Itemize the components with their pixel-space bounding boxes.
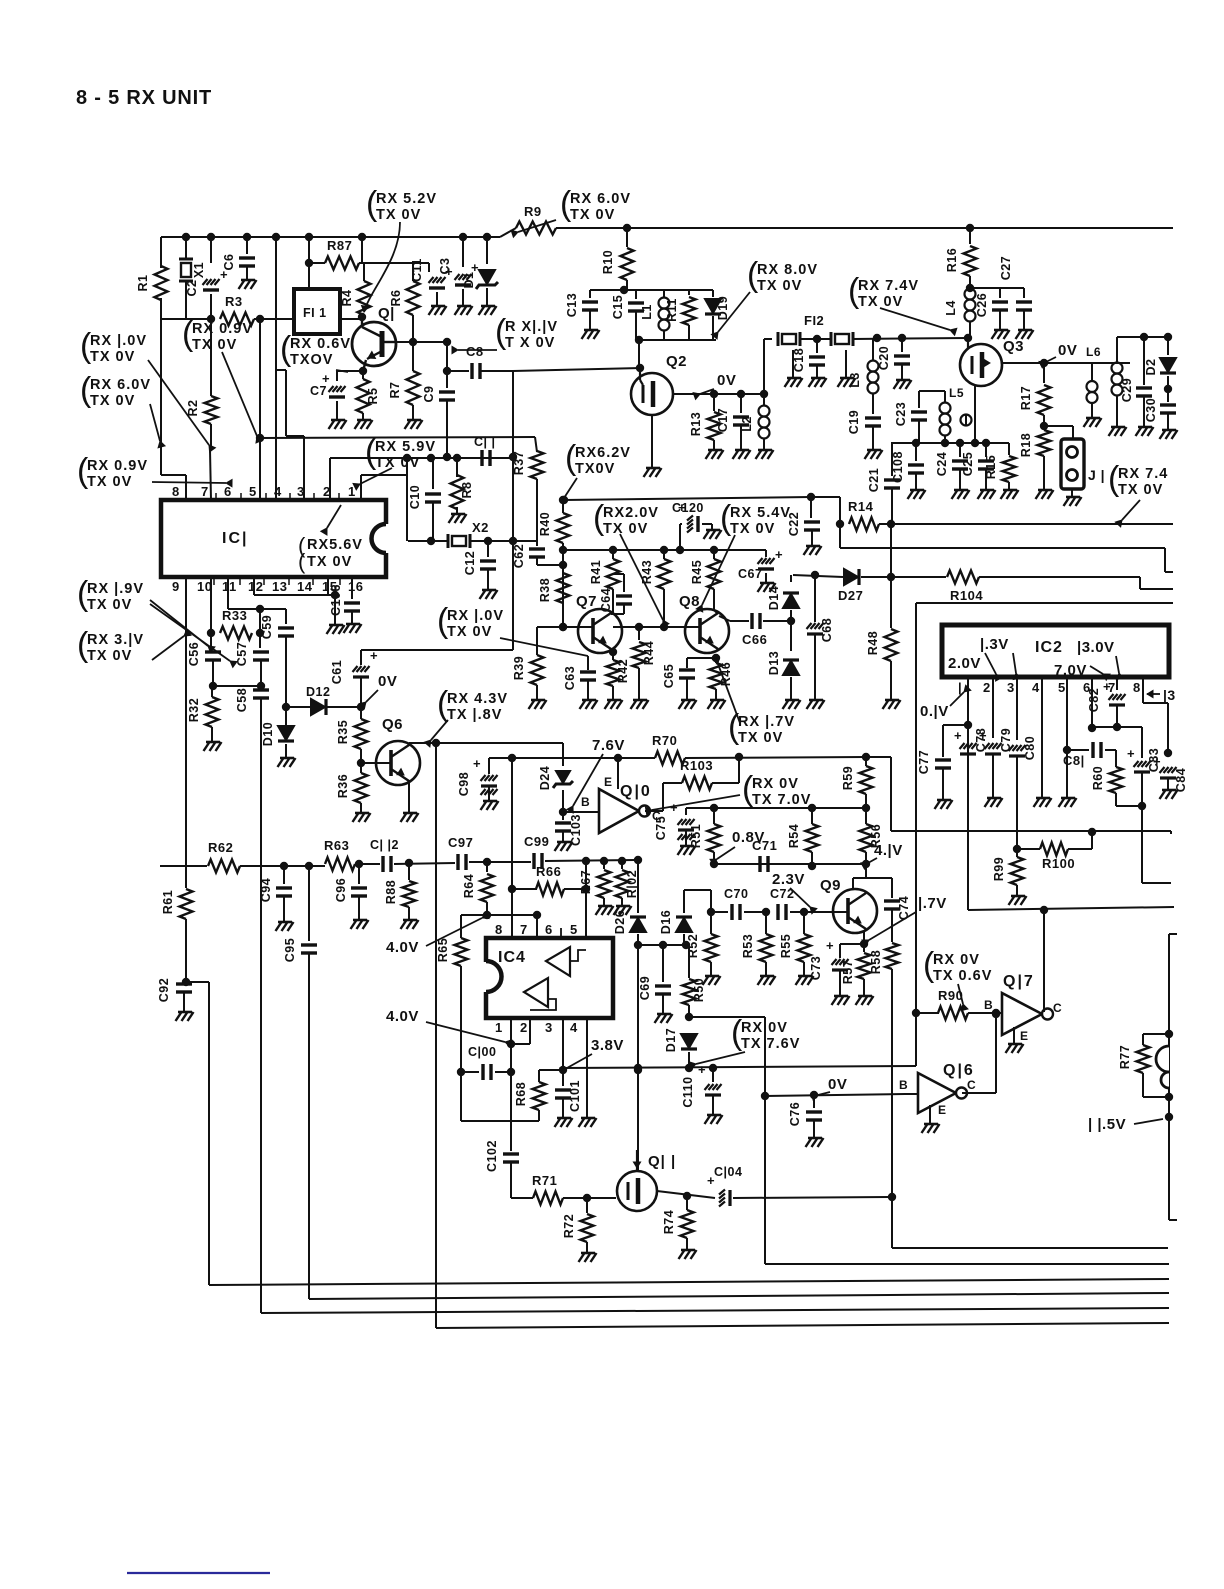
svg-text:C6: C6 [222,254,236,271]
wire C83 node down [1141,806,1143,883]
capacitor C30 [1167,389,1169,402]
capacitor C24 [959,443,961,457]
wire y832 crossing [1088,828,1096,836]
svg-text:R72: R72 [562,1214,576,1238]
svg-text:Q|6: Q|6 [943,1062,975,1079]
resistor R33 [220,627,252,640]
svg-text:Q3: Q3 [1003,338,1024,355]
wire y808 node line [686,807,866,809]
capacitor C3 [459,233,467,241]
svg-text:C57: C57 [235,642,249,666]
svg-text:2: 2 [520,1020,528,1035]
transistor Q1 [352,322,396,366]
capacitor C65 [686,658,688,668]
fet Q2 [631,373,673,415]
svg-text:RX 5.9V: RX 5.9V [375,439,436,455]
transistor Q6 [376,741,420,785]
svg-text:R63: R63 [324,838,349,853]
capacitor C64 [623,574,625,592]
wire top supply bus [161,236,500,238]
svg-text:L4: L4 [944,300,958,316]
svg-text:C: C [1053,1001,1062,1015]
diode D19 [712,290,714,297]
capacitor C96 [358,864,360,884]
resistor R104 [940,576,946,578]
wire y865 node line [714,863,866,865]
resistor R15 [1008,443,1010,455]
wire Q7 base line [537,626,593,628]
svg-text:Q2: Q2 [666,353,687,370]
svg-text:C3: C3 [438,258,452,275]
inductor L1 [663,290,665,297]
capacitor C56 [210,633,212,648]
svg-text:|: | [958,680,962,695]
svg-text:R2: R2 [186,400,200,417]
IC2 pin7 lead C82 [1116,677,1118,690]
svg-text:0.8V: 0.8V [732,829,765,846]
capacitor C11 [480,450,483,466]
svg-text:7.6V: 7.6V [592,737,625,754]
wire R87-R4 node to bus [359,262,364,264]
svg-text:Q|0: Q|0 [620,783,652,800]
svg-text:TX 0V: TX 0V [375,455,420,471]
svg-text:0V: 0V [828,1076,847,1093]
inductor L3 [872,338,874,361]
inductor L4 [965,289,976,300]
crystal X1 [182,233,190,241]
wire Q6 collector line [408,743,410,746]
svg-text:C24: C24 [935,452,949,476]
svg-text:C|04: C|04 [714,1165,742,1179]
svg-text:TX 7.0V: TX 7.0V [752,792,811,808]
svg-text:Q9: Q9 [820,877,841,894]
capacitor C70 [710,890,712,912]
svg-text:J |: J | [1088,467,1105,483]
svg-text:TX 0V: TX 0V [730,521,775,537]
capacitor C120 [687,516,693,521]
svg-text:C17: C17 [716,408,730,432]
resistor R41 [612,550,614,559]
tank L5 / C23 [919,390,945,392]
svg-text:IC|: IC| [222,530,248,547]
capacitor C94 [283,866,285,884]
svg-text:D2: D2 [1144,359,1158,376]
capacitor C92 [176,982,192,985]
svg-text:TX 0V: TX 0V [90,393,135,409]
svg-text:C15: C15 [611,295,625,319]
IC2 pin1 lead [967,677,969,910]
wire Q9 base line [804,911,848,913]
wire Q1 emitter node [359,367,367,375]
wire y728 [1092,726,1142,728]
resistor R58 [891,930,893,942]
wire Q16 E ground [929,1105,931,1124]
filter FI2 crystal a [777,332,780,346]
svg-text:C62: C62 [512,544,526,568]
svg-text:C66: C66 [742,632,767,647]
svg-text:R14: R14 [848,499,874,514]
wire pin1 bottom corner [968,907,1174,910]
svg-text:R3: R3 [225,294,243,309]
coil L5b [961,415,972,426]
resistor R60 [1115,750,1117,767]
svg-text:C98: C98 [457,772,471,796]
footer underline [127,1572,270,1574]
svg-text:C80: C80 [1023,736,1037,760]
svg-text:C2: C2 [185,280,199,297]
wire pin1 lead [360,475,362,500]
svg-text:C75: C75 [654,816,668,840]
resistor R56 [865,808,867,824]
resistor R35 [360,707,362,719]
capacitor C59 [260,608,286,610]
wire C67 feed [765,550,767,557]
capacitor C77 [935,758,951,761]
IC4 pin7 wiring [536,915,538,938]
svg-text:RX |.0V: RX |.0V [447,608,504,624]
resistor R5 [362,371,364,379]
wire Q10 out to R103 [645,810,663,812]
label 13 output [1147,690,1153,697]
svg-text:+: + [370,648,378,663]
svg-text:D24: D24 [538,766,552,790]
svg-text:R10: R10 [601,250,615,274]
svg-text:R88: R88 [384,880,398,904]
wire R87 left to FI1 top [305,233,313,241]
wire bottom line 2 [261,1308,1169,1313]
resistor R66 [512,888,537,890]
svg-text:RX 8.0V: RX 8.0V [757,262,818,278]
svg-text:R1: R1 [136,275,150,292]
svg-text:R35: R35 [336,720,350,744]
wire D27 line [793,575,843,577]
wire L6 sec top line [1117,336,1168,338]
svg-text:C110: C110 [681,1076,695,1107]
svg-text:8: 8 [1133,680,1141,695]
svg-text:RX 7.4: RX 7.4 [1118,466,1168,482]
svg-text:TX 0V: TX 0V [87,597,132,613]
diode D12 [286,706,310,708]
svg-text:C30: C30 [1144,398,1158,422]
svg-text:R50: R50 [692,978,706,1002]
wire nested line B [839,524,841,548]
svg-text:8 - 5 RX UNIT: 8 - 5 RX UNIT [76,87,212,109]
svg-text:RX 5.2V: RX 5.2V [376,191,437,207]
svg-text:C101: C101 [568,1080,582,1112]
svg-text:R38: R38 [538,578,552,602]
wire y1068 line [560,1066,916,1068]
resistor R45 [713,550,715,559]
svg-text:IC2: IC2 [1035,639,1063,656]
capacitor C17 [740,394,742,413]
svg-text:C59: C59 [260,615,274,639]
resistor R71 [533,1192,563,1205]
svg-text:12: 12 [248,579,263,594]
svg-text:R39: R39 [512,656,526,680]
svg-text:D10: D10 [261,722,275,746]
svg-text:C11: C11 [410,258,424,282]
capacitor C74 [884,899,900,902]
buffer Q10 [599,789,639,833]
buffer Q16 [918,1073,956,1113]
svg-text:RX2.0V: RX2.0V [603,505,659,521]
node line y340 [636,339,716,341]
svg-text:D14: D14 [767,586,781,610]
wire pin3 stepped feed [276,369,286,371]
svg-text:C92: C92 [157,978,171,1002]
resistor R42 [612,652,614,660]
svg-text:C26: C26 [975,293,989,317]
resistor R37 [531,451,544,479]
resistor R103 [682,777,712,790]
wire y497 line [564,497,811,500]
svg-text:R54: R54 [787,824,801,848]
svg-text:C70: C70 [724,887,748,901]
svg-text:TX 0.6V: TX 0.6V [933,968,992,984]
capacitor C9 [446,371,448,388]
wire x436 long vertical [435,743,437,1328]
svg-text:7.0V: 7.0V [1054,662,1087,679]
svg-text:16: 16 [348,579,363,594]
wire 4.1V branch [865,864,867,878]
capacitor C21 [891,443,893,476]
svg-text:C84: C84 [1174,768,1188,792]
IC2 pin5 lead [1066,677,1068,798]
wire Q3 source line 0V [1002,362,1130,364]
svg-text:+: + [979,728,987,743]
wire pin15 ground drop [334,595,336,625]
diode D13 [790,621,792,651]
svg-text:TX 0V: TX 0V [738,730,783,746]
svg-text:C95: C95 [283,938,297,962]
resistor R39 [536,627,538,655]
svg-text:C20: C20 [877,346,891,370]
wire x1171 end [1170,831,1172,834]
svg-text:RX 0.9V: RX 0.9V [87,458,148,474]
svg-text:TX 0V: TX 0V [376,207,421,223]
svg-text:2: 2 [323,484,331,499]
svg-text:TX 7.6V: TX 7.6V [741,1036,800,1052]
svg-text:+: + [1103,679,1111,694]
resistor R43 [663,550,665,559]
svg-text:C8|: C8| [1063,753,1085,768]
svg-text:R104: R104 [950,588,983,603]
capacitor C29 [1143,337,1145,385]
svg-text:R65: R65 [436,938,450,962]
svg-text:R59: R59 [841,766,855,790]
node line y443 [891,442,1009,444]
resistor R52 [710,912,712,934]
capacitor C61 [360,650,362,665]
resistor R3 [220,313,254,326]
wire C92 branch right [186,981,209,983]
capacitor C25 [985,443,987,457]
svg-text:R67: R67 [579,870,593,894]
wire 7.6V line right [618,757,655,759]
diode D26 [637,860,639,913]
svg-text:C: C [967,1078,976,1092]
svg-text:C|00: C|00 [468,1045,496,1059]
svg-text:8: 8 [495,922,503,937]
svg-text:R60: R60 [1091,766,1105,790]
wire R58 bottom bus [892,1247,1168,1249]
resistor R88 [408,863,410,880]
wire Q9 emitter node [860,940,868,948]
svg-text:13: 13 [272,579,287,594]
svg-text:TX 0V: TX 0V [1118,482,1163,498]
diode D2 [1167,337,1169,355]
resistor R48 [890,577,892,628]
svg-text:Q7: Q7 [576,593,597,610]
resistor R46 [715,658,717,663]
svg-text:TX 0V: TX 0V [90,349,135,365]
svg-text:R41: R41 [589,560,603,584]
svg-text:C18: C18 [792,348,806,372]
capacitor C58 [253,688,269,691]
svg-text:D26: D26 [613,910,627,934]
resistor R74 [686,1196,688,1210]
resistor R77 [1143,1033,1169,1035]
svg-text:TX 0V: TX 0V [447,624,492,640]
wire pin1 lead [510,1018,512,1044]
IC IC2 [942,625,1169,677]
wire pin15 [327,577,329,595]
wire Q10 B [563,811,599,813]
capacitor C26 [999,288,1001,298]
wire Q2 source to ground [651,415,653,468]
svg-text:C| |2: C| |2 [370,838,399,852]
svg-text:C19: C19 [847,410,861,434]
svg-text:R66: R66 [536,864,561,879]
inductor L6 primary [1091,363,1093,380]
svg-text:TX 0V: TX 0V [87,474,132,490]
svg-text:R4: R4 [340,290,354,307]
svg-text:R33: R33 [222,608,247,623]
svg-text:R44: R44 [642,641,656,665]
svg-text:RX |.9V: RX |.9V [87,581,144,597]
svg-text:RX |.0V: RX |.0V [90,333,147,349]
svg-text:C106: C106 [329,584,343,616]
capacitor C8 [447,370,469,372]
capacitor C67 [758,558,763,564]
svg-text:|.3V: |.3V [980,636,1009,653]
svg-text:Q|7: Q|7 [1003,973,1035,990]
svg-text:C25: C25 [961,452,975,476]
svg-text:R6: R6 [389,290,403,307]
wire Q7 collector node [611,613,613,615]
svg-text:R100: R100 [1042,856,1075,871]
svg-text:R57: R57 [841,960,855,984]
capacitor C106 [351,577,353,599]
svg-text:3: 3 [545,1020,553,1035]
svg-text:RX 0V: RX 0V [741,1020,788,1036]
svg-text:C82: C82 [1087,688,1101,712]
wire up to FI2 [763,339,765,394]
wire R3 to FI1 [254,318,294,320]
svg-text:IC4: IC4 [498,949,526,966]
svg-text:D1: D1 [462,272,476,289]
wire y945 node [638,944,689,946]
svg-text:C61: C61 [330,660,344,684]
resistor R17 [1043,363,1045,383]
resistor R10 [623,224,631,232]
resistor R9 [516,222,556,235]
svg-text:RX 0V: RX 0V [933,952,980,968]
svg-text:R15: R15 [984,455,998,479]
capacitor C62 [536,541,538,546]
resistor R57 [863,944,865,952]
wire inner box corner [916,602,1173,604]
svg-text:C67: C67 [738,567,762,581]
resistor R51 [713,808,715,824]
wire Q8 collector line to C66 [719,616,730,621]
svg-text:C58: C58 [235,688,249,712]
svg-text:RX 3.|V: RX 3.|V [87,632,144,648]
wire bottom line 1 [209,1279,1169,1285]
capacitor C78 [960,743,965,749]
svg-text:R13: R13 [689,412,703,436]
svg-text:|3.0V: |3.0V [1077,639,1115,656]
wire pin4 feed [272,233,280,241]
svg-text:C13: C13 [565,293,579,317]
svg-text:C10: C10 [408,485,422,509]
svg-text:T X 0V: T X 0V [505,335,555,351]
diode D17 [681,1034,697,1048]
diode D14 [790,575,792,582]
resistor R64 [486,862,488,872]
capacitor C75 [685,808,687,815]
wire RX7.4 line to right [891,523,1173,525]
IC2 pin6 lead [1091,677,1093,728]
resistor R53 [765,912,767,934]
transistor Q9 [833,889,877,933]
resistor R2 [210,319,212,396]
wire connector bracket [1168,934,1170,1220]
wire pin5 lead x586 [585,861,587,938]
svg-text:5: 5 [1058,680,1066,695]
svg-text:R62: R62 [208,840,233,855]
resistor R13 [713,394,715,411]
resistor R38 [557,573,570,603]
svg-text:R37: R37 [512,451,526,475]
svg-text:C| |: C| | [474,435,496,449]
capacitor C13 [589,290,591,298]
svg-text:C102: C102 [485,1140,499,1172]
capacitor C108 [915,443,917,461]
svg-text:R87: R87 [327,238,352,253]
svg-text:R11: R11 [665,298,679,322]
svg-text:R|02: R|02 [625,870,639,898]
capacitor C23 [911,410,927,413]
svg-text:TXOV: TXOV [290,352,333,368]
svg-text:5: 5 [570,922,578,937]
wire Q17 B [996,1012,1002,1014]
svg-text:RX |.7V: RX |.7V [738,714,795,730]
svg-text:RX5.6V: RX5.6V [307,537,363,553]
svg-text:C29: C29 [1120,378,1134,402]
wire R38 bottom to Q7 region [562,601,564,627]
wire y550 node line [563,549,766,551]
inductor L5 [944,391,946,402]
svg-text:L2: L2 [740,416,754,432]
svg-text:E: E [604,775,613,789]
capacitor C73 [832,959,837,965]
svg-text:3: 3 [1007,680,1015,695]
svg-text:D19: D19 [716,296,730,320]
svg-text:TX 0V: TX 0V [192,337,237,353]
wire 0.1V C77 branch [943,724,968,726]
wire pin10 [210,577,212,633]
